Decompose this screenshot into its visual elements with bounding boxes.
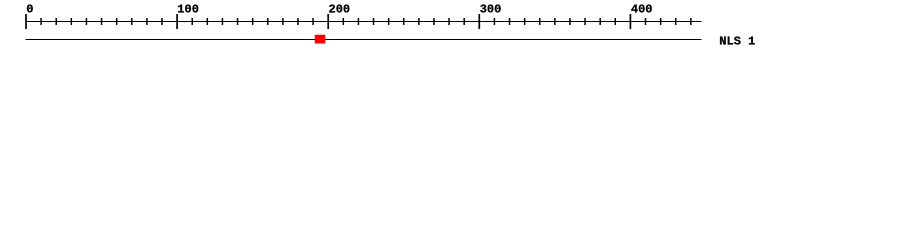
ruler baseline [25,21,701,22]
ruler minor ticks [40,18,691,25]
svg-text:300: 300 [480,2,502,16]
svg-text:0: 0 [26,2,33,16]
protein feature line [25,39,701,40]
svg-text:NLS 1: NLS 1 [719,34,755,48]
svg-text:400: 400 [631,2,653,16]
svg-text:200: 200 [329,2,351,16]
svg-text:100: 100 [177,2,199,16]
ruler major tick 300 [478,14,480,29]
ruler major tick 0 [25,14,27,29]
ruler major tick 400 [630,14,632,29]
ruler major tick 200 [327,14,329,29]
NLS 1 feature red box [315,35,326,44]
ruler major tick 100 [176,14,178,29]
